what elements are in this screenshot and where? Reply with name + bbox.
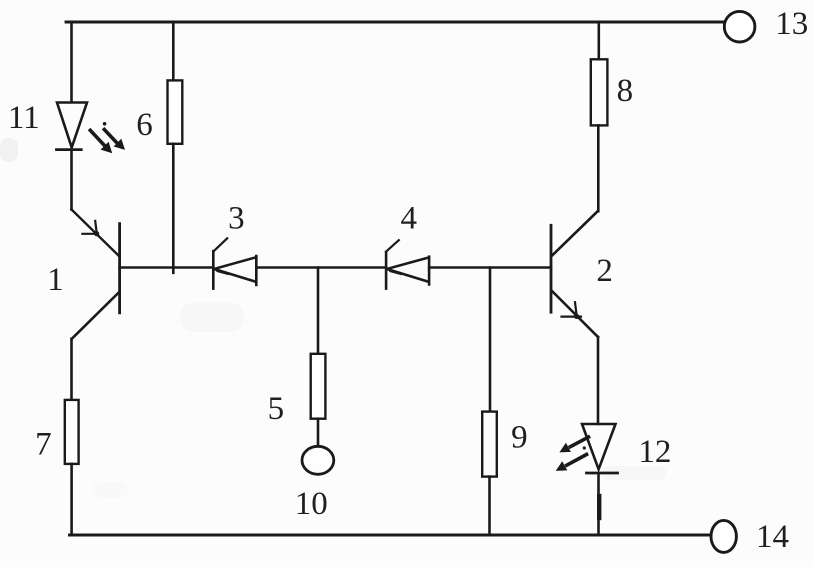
svg-text:7: 7 [35, 427, 52, 463]
transistor 2 [551, 211, 598, 337]
wire top supply rail [66, 21, 726, 24]
LED 11 [57, 103, 126, 154]
wire LED 12 cathode to bottom rail [597, 474, 600, 536]
wire resistor 6 branch lower to base bus [172, 144, 175, 273]
resistor 8 [591, 59, 608, 125]
terminal 14 [711, 520, 736, 552]
wire left branch from rail to LED 11 [70, 22, 73, 102]
resistor 7 [65, 400, 79, 464]
wire resistor 7 to bottom rail [70, 464, 73, 535]
wire transistor 2 emitter to LED 12 [597, 337, 600, 424]
svg-text:4: 4 [400, 200, 417, 236]
wire resistor 5 to terminal 10 [317, 419, 320, 447]
svg-text:1: 1 [47, 262, 64, 298]
wire transistor 1 collector down to resistor 7 [70, 339, 73, 400]
svg-text:5: 5 [268, 391, 285, 427]
svg-text:6: 6 [136, 107, 153, 143]
wire bottom rail [70, 534, 712, 537]
diode 4 [386, 240, 429, 288]
resistor 6 [168, 80, 183, 143]
terminal 10 [302, 446, 334, 474]
svg-text:9: 9 [511, 420, 528, 456]
wire base bus: diode 4 to transistor 2 [429, 266, 551, 269]
wire resistor 8 to transistor 2 collector [597, 125, 600, 211]
wire resistor 8 branch from rail [597, 22, 600, 59]
wire base bus: diode 3 to diode 4 [256, 266, 386, 269]
svg-text:8: 8 [617, 73, 634, 109]
wire resistor 5 branch upper [317, 268, 320, 354]
LED 12 [556, 424, 618, 473]
terminal 13 [724, 11, 755, 42]
resistor 5 [311, 354, 326, 419]
transistor 1 [72, 210, 120, 339]
svg-text:12: 12 [638, 434, 671, 470]
svg-text:14: 14 [756, 519, 789, 555]
svg-text:11: 11 [8, 100, 40, 136]
svg-text:3: 3 [228, 200, 245, 236]
diode 3 [213, 238, 256, 288]
faint scan smudge patches (decorative) [0, 138, 666, 498]
wire base bus: transistor 1 to diode 3 [120, 266, 213, 269]
svg-text:13: 13 [775, 6, 808, 42]
wire resistor 6 branch upper [172, 22, 175, 80]
svg-text:10: 10 [295, 486, 328, 522]
wire resistor 9 branch upper [489, 268, 492, 412]
wire resistor 9 to bottom rail [488, 477, 491, 535]
svg-text:2: 2 [596, 253, 613, 289]
wire LED 11 cathode to transistor 1 emitter [70, 150, 73, 210]
resistor 9 [482, 412, 497, 477]
